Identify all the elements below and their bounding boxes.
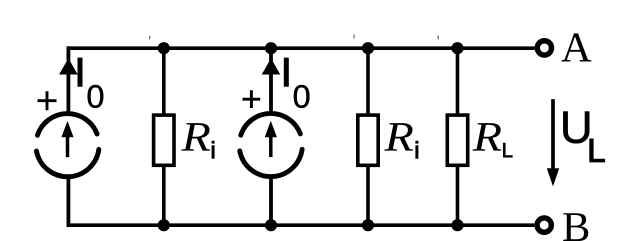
node bottom 1	[158, 219, 170, 231]
node top 3	[362, 42, 374, 54]
tick artifact 2	[353, 34, 354, 38]
resistor RL	[447, 115, 467, 165]
label + (source 1)	[38, 91, 57, 110]
label + (source 2)	[243, 90, 261, 108]
label Ri #2	[384, 123, 413, 151]
wire branch 2 (Ri #1)	[162, 48, 166, 225]
node top 4	[451, 42, 463, 54]
label B	[563, 213, 588, 241]
label RL	[473, 123, 502, 151]
current source I0 #1	[36, 114, 98, 177]
resistor Ri #2	[358, 115, 378, 165]
resistor Ri #1	[154, 115, 174, 165]
node bottom 3	[362, 219, 374, 231]
terminal B	[537, 218, 551, 232]
tick artifact 3	[438, 35, 439, 39]
label A	[561, 33, 591, 61]
wire branch 3 (source 2)	[269, 48, 273, 225]
terminal A	[537, 41, 551, 55]
wire bottom rail	[67, 223, 535, 227]
node top 2	[265, 42, 277, 54]
label Ri #1	[181, 123, 210, 151]
tick artifact 1	[149, 36, 150, 39]
label I0 #1	[78, 58, 82, 86]
label I0 #2	[284, 58, 288, 86]
current source I0 #2	[240, 113, 302, 176]
label UL	[563, 112, 589, 144]
arrow I0 #2	[262, 58, 281, 74]
wire branch 5 (RL)	[456, 48, 460, 225]
wire branch 4 (Ri #2)	[366, 48, 370, 225]
node bottom 4	[451, 219, 463, 231]
arrow UL	[551, 99, 555, 170]
node top 1	[158, 42, 170, 54]
wire top rail	[67, 46, 535, 50]
wire left branch (source 1)	[67, 46, 71, 227]
node bottom 2	[265, 219, 277, 231]
arrow I0 #1	[59, 58, 78, 74]
